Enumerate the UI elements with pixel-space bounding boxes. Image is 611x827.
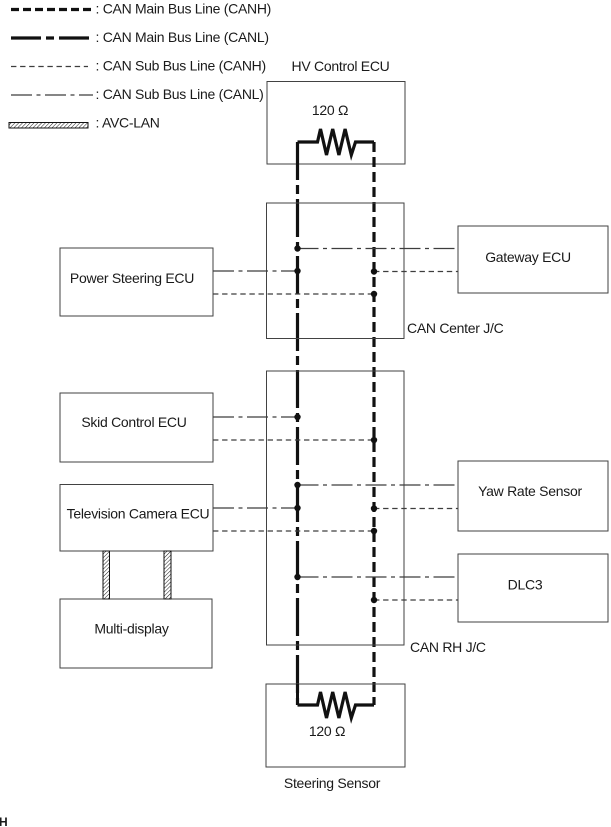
- wire: CAN main bus CANH (right vertical): [372, 142, 375, 705]
- wire: AVC-LAN bus left (Television Camera ECU to Multi-display): [103, 551, 110, 599]
- box: Steering Sensor: [266, 684, 405, 767]
- node: CANL junction to Yaw Rate Sensor: [294, 482, 300, 488]
- wire: Yaw Rate Sensor CANL sub line: [298, 484, 459, 486]
- svg-text:Skid Control ECU: Skid Control ECU: [81, 414, 186, 430]
- wire: AVC-LAN bus right (Television Camera ECU to Multi-display): [164, 551, 171, 599]
- svg-text:Gateway ECU: Gateway ECU: [485, 249, 571, 265]
- svg-text:Yaw Rate Sensor: Yaw Rate Sensor: [478, 483, 582, 499]
- box: Gateway ECU: [458, 226, 608, 293]
- wire: Yaw Rate Sensor CANH sub line: [374, 508, 458, 510]
- box: CAN RH J/C: [267, 371, 405, 645]
- resistor R2 (terminating resistor in Steering Sensor): [298, 692, 375, 718]
- wire: Television Camera ECU CANL sub line: [213, 507, 298, 509]
- wire: Skid Control ECU CANH sub line: [213, 439, 374, 441]
- svg-text:: CAN Sub Bus Line (CANH): : CAN Sub Bus Line (CANH): [96, 58, 266, 74]
- wire: CANL lead into Steering Sensor: [296, 684, 299, 705]
- box: DLC3: [458, 554, 608, 622]
- svg-text:: AVC-LAN: : AVC-LAN: [96, 115, 160, 131]
- svg-text:120 Ω: 120 Ω: [312, 102, 348, 118]
- box: Skid Control ECU: [60, 393, 213, 462]
- box: Power Steering ECU: [60, 248, 213, 316]
- node: CANH junction to Television Camera ECU: [371, 528, 377, 534]
- node: CANL junction to Television Camera ECU: [294, 505, 300, 511]
- svg-text:120 Ω: 120 Ω: [309, 723, 345, 739]
- svg-text:Multi-display: Multi-display: [94, 621, 168, 637]
- svg-text:Power Steering ECU: Power Steering ECU: [70, 270, 194, 286]
- legend line sample: CAN Sub Bus Line (CANH): [11, 66, 88, 68]
- svg-text:H: H: [0, 815, 7, 827]
- wire: DLC3 CANH sub line: [374, 599, 458, 601]
- wire: DLC3 CANL sub line: [298, 576, 459, 578]
- legend line sample: CAN Main Bus Line (CANH): [11, 8, 93, 11]
- node: CANL junction to Gateway ECU: [294, 245, 300, 251]
- node: CANH junction to Yaw Rate Sensor: [371, 505, 377, 511]
- node: CANH junction to Power Steering ECU: [371, 291, 377, 297]
- resistor R1 (terminating resistor in HV Control ECU): [298, 129, 375, 155]
- node: CANL junction to DLC3: [294, 574, 300, 580]
- box: Yaw Rate Sensor: [458, 461, 608, 531]
- wire: Power Steering ECU CANH sub line: [213, 293, 374, 295]
- node: CANH junction to DLC3: [371, 597, 377, 603]
- legend line sample: CAN Main Bus Line (CANL): [11, 36, 93, 39]
- svg-text:: CAN Main Bus Line (CANH): : CAN Main Bus Line (CANH): [96, 1, 272, 17]
- box: HV Control ECU: [267, 82, 405, 165]
- node: CANH junction to Gateway ECU: [371, 268, 377, 274]
- box: Television Camera ECU: [60, 485, 213, 552]
- wire: Gateway ECU CANL sub line: [298, 248, 459, 250]
- svg-text:: CAN Sub Bus Line (CANL): : CAN Sub Bus Line (CANL): [96, 86, 264, 102]
- legend hatch sample: AVC-LAN: [9, 123, 88, 129]
- svg-text:: CAN Main Bus Line (CANL): : CAN Main Bus Line (CANL): [96, 29, 269, 45]
- svg-text:CAN Center J/C: CAN Center J/C: [407, 320, 504, 336]
- legend line sample: CAN Sub Bus Line (CANL): [11, 94, 93, 96]
- node: CANH junction to Skid Control ECU: [371, 437, 377, 443]
- svg-text:Steering Sensor: Steering Sensor: [284, 775, 381, 791]
- wire: Skid Control ECU CANL sub line: [213, 416, 298, 418]
- svg-text:DLC3: DLC3: [508, 577, 543, 593]
- wire: Gateway ECU CANH sub line: [374, 271, 458, 273]
- svg-text:HV Control ECU: HV Control ECU: [292, 58, 390, 74]
- wire: Television Camera ECU CANH sub line: [213, 530, 374, 532]
- svg-text:CAN RH J/C: CAN RH J/C: [410, 639, 486, 655]
- box: CAN Center J/C: [267, 203, 405, 339]
- node: CANL junction to Skid Control ECU: [294, 414, 300, 420]
- wire: CAN main bus CANL (left vertical): [296, 142, 299, 705]
- svg-text:Television Camera ECU: Television Camera ECU: [67, 506, 210, 522]
- node: CANL junction to Power Steering ECU: [294, 268, 300, 274]
- wire: Power Steering ECU CANL sub line: [213, 270, 298, 272]
- box: Multi-display: [60, 599, 212, 668]
